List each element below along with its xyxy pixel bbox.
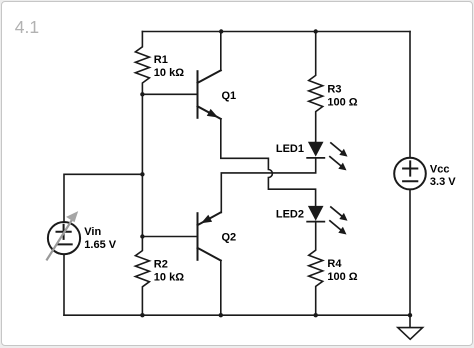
- resistor R2: [135, 237, 149, 316]
- label R2 value: [154, 259, 184, 284]
- svg-text:LED2: LED2: [276, 209, 304, 221]
- label Vin value: [84, 226, 116, 251]
- svg-text:R1: R1: [154, 54, 168, 66]
- wire LED1 cathode to Q2 emitter: [221, 158, 315, 213]
- wire bottom rail: [64, 314, 410, 316]
- svg-text:1.65 V: 1.65 V: [84, 239, 116, 251]
- svg-text:Q2: Q2: [222, 231, 237, 243]
- svg-text:R3: R3: [327, 84, 341, 96]
- svg-text:100 Ω: 100 Ω: [327, 271, 357, 283]
- label R3 value: [327, 84, 357, 109]
- wire top rail: [142, 31, 410, 33]
- svg-text:R4: R4: [327, 258, 342, 270]
- label Vcc value: [430, 163, 456, 188]
- node junction dots: [140, 29, 412, 317]
- wire left rail (Vin column): [64, 174, 142, 315]
- LED1: [307, 142, 324, 158]
- resistor R1: [135, 32, 149, 95]
- label LED1: [276, 143, 304, 155]
- resistor R4: [309, 222, 323, 316]
- svg-text:4.1: 4.1: [15, 17, 39, 37]
- ground: [398, 315, 423, 339]
- svg-text:3.3 V: 3.3 V: [430, 176, 456, 188]
- LED2 light arrows: [330, 207, 342, 230]
- voltage source Vcc: [394, 158, 426, 190]
- Q1 emitter arrow: [207, 109, 218, 118]
- wire Q2 base: [142, 236, 197, 238]
- wire Vcc right rail: [409, 32, 411, 316]
- transistor Q1: [198, 70, 221, 119]
- svg-text:10 kΩ: 10 kΩ: [154, 271, 184, 283]
- label LED2: [276, 209, 304, 221]
- Vin variable arrow: [47, 221, 72, 260]
- wire mid rail between R1 and R2: [141, 94, 143, 236]
- wire Q1 emitter to LED2 anode (with hop): [221, 119, 316, 206]
- label Q2: [222, 231, 237, 243]
- svg-text:100 Ω: 100 Ω: [327, 96, 357, 108]
- transistor Q2: [198, 212, 221, 260]
- svg-text:LED1: LED1: [276, 143, 304, 155]
- Q2 emitter arrow: [201, 215, 212, 224]
- svg-text:Vin: Vin: [84, 226, 101, 238]
- svg-text:Vcc: Vcc: [430, 163, 450, 175]
- LED2: [307, 206, 324, 222]
- wire Q1 base: [142, 93, 197, 95]
- LED1 light arrows: [330, 143, 342, 166]
- svg-text:R2: R2: [154, 259, 168, 271]
- wire Q2 collector: [220, 261, 222, 316]
- label R4 value: [327, 258, 357, 283]
- resistor R3: [309, 32, 323, 142]
- svg-text:10 kΩ: 10 kΩ: [154, 67, 184, 79]
- figure number 4.1: [15, 17, 39, 37]
- svg-text:Q1: Q1: [222, 90, 237, 102]
- label Q1: [222, 90, 237, 102]
- label R1 value: [154, 54, 184, 79]
- wire Q1 collector: [220, 32, 222, 71]
- voltage source Vin: [48, 222, 80, 254]
